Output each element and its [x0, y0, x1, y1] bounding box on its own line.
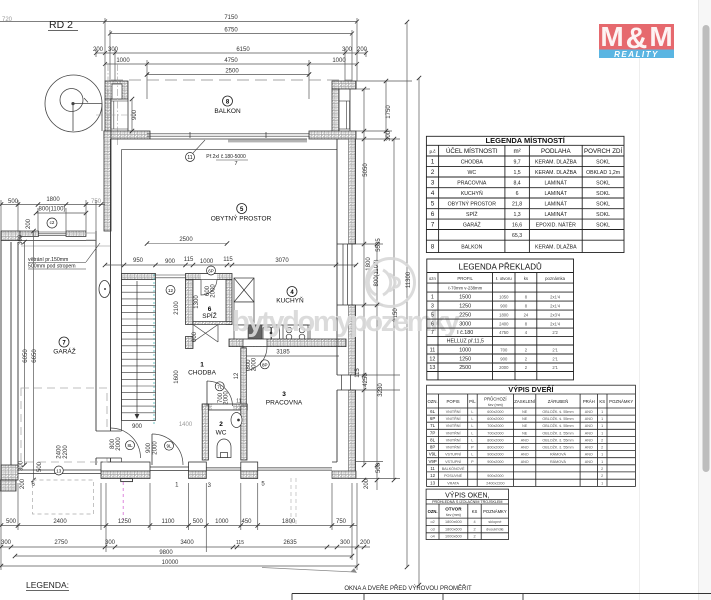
svg-text:ℓ-70mm v-238mm: ℓ-70mm v-238mm — [448, 286, 482, 291]
svg-text:2: 2 — [525, 347, 528, 352]
svg-text:4: 4 — [525, 330, 528, 335]
svg-text:200: 200 — [20, 478, 26, 489]
svg-text:2100: 2100 — [174, 301, 180, 315]
svg-text:REALITY: REALITY — [614, 50, 659, 59]
svg-text:SOKL: SOKL — [596, 191, 610, 197]
spiral stair circle top-left — [45, 75, 102, 132]
svg-text:ℓ. otvoru: ℓ. otvoru — [496, 276, 512, 281]
toilet — [217, 439, 231, 457]
svg-text:NE: NE — [522, 410, 528, 414]
svg-text:OBLOŽK. š. 55mm: OBLOŽK. š. 55mm — [542, 437, 573, 442]
svg-text:2: 2 — [601, 474, 603, 478]
svg-text:200: 200 — [93, 47, 104, 53]
svg-text:1250: 1250 — [118, 519, 132, 525]
svg-text:OBLOŽK. š. 55mm: OBLOŽK. š. 55mm — [542, 430, 573, 435]
svg-text:PRACOVNA: PRACOVNA — [266, 400, 303, 407]
svg-text:115: 115 — [223, 257, 233, 263]
svg-text:11: 11 — [430, 466, 435, 471]
svg-text:BALKON: BALKON — [461, 244, 482, 250]
vrata dashed swing — [33, 480, 94, 514]
svg-text:1,3: 1,3 — [513, 212, 520, 218]
svg-text:2: 2 — [525, 365, 528, 370]
svg-text:4: 4 — [290, 290, 294, 296]
svg-text:115: 115 — [355, 368, 361, 378]
svg-text:6650: 6650 — [32, 349, 38, 363]
svg-text:LAMINÁT: LAMINÁT — [545, 179, 568, 186]
svg-text:OBYTNÝ PROSTOR: OBYTNÝ PROSTOR — [211, 214, 272, 223]
svg-text:L: L — [471, 431, 473, 435]
kitchen bottom wall — [229, 339, 346, 347]
svg-text:5: 5 — [431, 200, 435, 207]
svg-text:KERAM. DLAŽBA: KERAM. DLAŽBA — [535, 242, 577, 250]
east door opening — [337, 375, 356, 390]
svg-text:8P: 8P — [430, 445, 435, 450]
svg-text:VNITŘNÍ: VNITŘNÍ — [446, 409, 462, 414]
svg-text:900: 900 — [132, 109, 138, 120]
balcony east pier — [332, 81, 356, 138]
svg-text:1000: 1000 — [459, 347, 471, 353]
svg-text:16,6: 16,6 — [512, 222, 522, 228]
svg-text:1100: 1100 — [162, 519, 176, 525]
svg-text:1: 1 — [601, 481, 603, 485]
east window — [337, 244, 356, 305]
svg-text:750: 750 — [336, 519, 347, 525]
svg-text:OBLOŽK. š. 55mm: OBLOŽK. š. 55mm — [542, 445, 573, 450]
svg-text:2: 2 — [473, 528, 475, 532]
svg-text:1,5: 1,5 — [513, 170, 520, 176]
svg-text:2x3'4: 2x3'4 — [550, 312, 561, 317]
svg-text:ÚČEL MÍSTNOSTI: ÚČEL MÍSTNOSTI — [446, 148, 498, 155]
svg-text:NE: NE — [522, 431, 528, 435]
svg-text:6: 6 — [32, 482, 36, 488]
svg-text:OBLOŽK. š. 55mm: OBLOŽK. š. 55mm — [542, 416, 573, 421]
svg-text:RÁMOVÁ: RÁMOVÁ — [550, 453, 567, 457]
svg-text:3: 3 — [431, 179, 435, 186]
svg-text:2500: 2500 — [459, 365, 471, 371]
door 7L — [206, 381, 208, 406]
svg-text:BALKÓNOVÉ: BALKÓNOVÉ — [442, 466, 465, 471]
svg-text:1: 1 — [601, 431, 603, 435]
svg-text:PRŮHLEDNÁ S IZOLAČNÍM TROJSK: PRŮHLEDNÁ S IZOLAČNÍM TROJSKLEM — [432, 499, 502, 504]
svg-text:5: 5 — [240, 207, 244, 213]
svg-text:10000: 10000 — [162, 560, 179, 566]
svg-text:V9P: V9P — [428, 459, 436, 464]
svg-text:1: 1 — [601, 453, 603, 457]
svg-text:8L: 8L — [127, 443, 133, 448]
svg-text:2400x2200: 2400x2200 — [486, 481, 504, 485]
svg-text:3: 3 — [431, 303, 434, 309]
svg-text:ANO: ANO — [585, 453, 593, 457]
svg-text:8: 8 — [431, 243, 435, 250]
svg-text:ANO: ANO — [585, 460, 593, 464]
svg-text:11: 11 — [187, 155, 192, 161]
svg-text:7: 7 — [431, 330, 434, 336]
svg-text:12: 12 — [234, 372, 240, 379]
svg-text:300: 300 — [108, 47, 119, 53]
svg-text:700x2000: 700x2000 — [487, 424, 503, 428]
svg-text:KERAM. DLAŽBA: KERAM. DLAŽBA — [535, 157, 577, 165]
svg-text:2: 2 — [525, 356, 528, 361]
svg-text:KS: KS — [472, 509, 478, 514]
svg-text:L: L — [471, 438, 473, 442]
svg-text:POZNÁMKY: POZNÁMKY — [609, 399, 633, 404]
svg-text:ANO: ANO — [521, 453, 529, 457]
svg-text:LEGENDA:: LEGENDA: — [26, 580, 69, 590]
svg-text:720: 720 — [2, 17, 13, 23]
svg-text:800x2000: 800x2000 — [487, 446, 503, 450]
svg-text:8L: 8L — [430, 437, 435, 442]
threshold — [121, 479, 133, 482]
svg-text:p.č: p.č — [429, 149, 436, 154]
svg-text:6P: 6P — [430, 416, 435, 421]
svg-text:4: 4 — [431, 190, 435, 197]
svg-text:3185: 3185 — [276, 350, 290, 356]
svg-text:LAMINÁT: LAMINÁT — [545, 200, 568, 207]
page edge faint — [639, 55, 641, 600]
svg-text:GARÁŽ: GARÁŽ — [53, 347, 75, 356]
svg-text:6050: 6050 — [23, 349, 29, 363]
svg-text:1800x600: 1800x600 — [445, 520, 462, 524]
svg-text:300: 300 — [340, 540, 351, 546]
svg-text:900: 900 — [500, 356, 508, 361]
svg-text:PRŮCHOZÍ: PRŮCHOZÍ — [484, 397, 507, 402]
svg-text:o3: o3 — [430, 528, 434, 532]
svg-text:500: 500 — [193, 519, 204, 525]
svg-text:šxv (mm): šxv (mm) — [488, 403, 503, 407]
svg-text:12: 12 — [429, 356, 435, 362]
svg-text:BALKON: BALKON — [214, 108, 241, 115]
balcony north dashed line — [111, 79, 352, 81]
svg-text:6: 6 — [431, 211, 435, 218]
svg-text:2: 2 — [219, 421, 223, 428]
svg-text:OBYTNÝ PROSTOR: OBYTNÝ PROSTOR — [448, 200, 497, 207]
svg-text:OTVOR: OTVOR — [445, 507, 462, 512]
svg-text:600: 600 — [192, 331, 198, 342]
svg-text:POZNÁMKY: POZNÁMKY — [483, 509, 507, 514]
svg-text:VÝPIS DVEŘÍ: VÝPIS DVEŘÍ — [508, 385, 554, 394]
wc sink — [231, 413, 242, 428]
stove — [283, 325, 308, 341]
svg-text:21,8: 21,8 — [512, 201, 522, 207]
svg-text:2'1: 2'1 — [552, 356, 558, 361]
svg-text:LEGENDA PŘEKLADŮ: LEGENDA PŘEKLADŮ — [459, 263, 542, 272]
svg-text:SOKL: SOKL — [596, 222, 610, 228]
svg-text:6750: 6750 — [224, 28, 238, 34]
svg-text:6150: 6150 — [236, 47, 250, 53]
svg-text:KUCHYŇ: KUCHYŇ — [276, 296, 304, 305]
svg-text:700x2000: 700x2000 — [487, 431, 503, 435]
svg-text:9800: 9800 — [159, 550, 173, 556]
svg-text:2000: 2000 — [116, 437, 122, 451]
label 11 with leader — [186, 153, 195, 162]
svg-text:1050: 1050 — [499, 294, 509, 299]
svg-text:1000: 1000 — [332, 58, 346, 64]
svg-text:dvoukřídlé: dvoukřídlé — [486, 528, 504, 532]
svg-text:2200: 2200 — [63, 445, 69, 459]
svg-text:2000: 2000 — [224, 391, 230, 405]
svg-text:L: L — [471, 453, 473, 457]
svg-text:LAMINÁT: LAMINÁT — [545, 190, 568, 197]
svg-text:200: 200 — [26, 218, 32, 229]
balcony label — [223, 96, 233, 106]
svg-text:2'2: 2'2 — [552, 330, 558, 335]
svg-text:poznámka: poznámka — [545, 276, 565, 281]
svg-text:SOKL: SOKL — [596, 159, 610, 165]
svg-text:ZASKLENÍ: ZASKLENÍ — [514, 399, 536, 404]
svg-text:L: L — [471, 424, 473, 428]
svg-text:VNITŘNÍ: VNITŘNÍ — [446, 423, 462, 428]
svg-text:600x2000: 600x2000 — [487, 410, 503, 414]
table LEGENDA MISTNOSTI — [426, 136, 624, 252]
svg-text:7: 7 — [62, 340, 66, 346]
svg-text:1: 1 — [200, 362, 204, 369]
svg-text:3230: 3230 — [378, 383, 384, 397]
svg-text:1000x600: 1000x600 — [445, 535, 462, 539]
svg-text:1000: 1000 — [215, 519, 229, 525]
spiz door X mark — [193, 325, 218, 343]
svg-text:2: 2 — [601, 467, 603, 471]
svg-text:1300: 1300 — [194, 295, 200, 309]
svg-text:200: 200 — [364, 478, 370, 489]
garage top wall — [1, 231, 20, 241]
svg-text:1800: 1800 — [46, 197, 60, 203]
svg-text:KS: KS — [599, 399, 605, 404]
svg-text:300: 300 — [342, 47, 353, 53]
svg-text:OZN.: OZN. — [427, 399, 437, 404]
svg-text:ANO: ANO — [585, 431, 593, 435]
svg-text:ozn: ozn — [429, 276, 437, 281]
svg-text:2'1: 2'1 — [552, 365, 558, 370]
svg-text:24: 24 — [524, 312, 529, 317]
svg-text:PRÁH: PRÁH — [583, 399, 595, 404]
svg-text:šxv (mm): šxv (mm) — [446, 513, 461, 517]
svg-text:WC: WC — [467, 170, 476, 176]
balcony west pier — [105, 81, 128, 131]
svg-text:SPÍŽ: SPÍŽ — [466, 210, 478, 218]
svg-text:6P: 6P — [208, 269, 214, 274]
svg-text:ANO: ANO — [585, 438, 593, 442]
svg-text:3: 3 — [208, 483, 212, 489]
svg-text:5050: 5050 — [363, 163, 369, 177]
svg-text:13: 13 — [429, 365, 435, 371]
svg-text:LAMINÁT: LAMINÁT — [545, 211, 568, 218]
kitchen label — [287, 287, 297, 297]
svg-text:OZN.: OZN. — [428, 509, 438, 514]
svg-text:7: 7 — [431, 221, 435, 228]
garage vrata opening — [18, 470, 101, 474]
svg-text:L: L — [471, 417, 473, 421]
svg-text:1800x600: 1800x600 — [445, 528, 462, 532]
windows bottom — [206, 468, 332, 471]
svg-text:PROFIL: PROFIL — [457, 276, 473, 281]
svg-text:SOKL: SOKL — [596, 180, 610, 186]
svg-text:SOKL: SOKL — [596, 201, 610, 207]
svg-text:VNITŘNÍ: VNITŘNÍ — [446, 416, 462, 421]
svg-text:2750: 2750 — [54, 540, 68, 546]
svg-text:800(1100): 800(1100) — [39, 207, 66, 213]
svg-text:200: 200 — [357, 47, 368, 53]
svg-text:c2: c2 — [50, 220, 55, 225]
svg-text:2000: 2000 — [499, 365, 509, 370]
svg-text:M: M — [600, 21, 623, 52]
svg-text:OBLOŽK. š. 55mm: OBLOŽK. š. 55mm — [542, 423, 573, 428]
svg-text:1: 1 — [601, 410, 603, 414]
svg-text:VRATA: VRATA — [447, 481, 459, 485]
svg-text:2: 2 — [473, 535, 475, 539]
svg-text:1800: 1800 — [282, 519, 296, 525]
svg-text:3: 3 — [282, 391, 286, 398]
svg-text:o2: o2 — [430, 520, 434, 524]
svg-text:900: 900 — [132, 424, 143, 430]
svg-text:P: P — [471, 446, 474, 450]
svg-text:OBKLAD 1,2m: OBKLAD 1,2m — [586, 170, 620, 176]
sink — [263, 327, 280, 341]
svg-text:2400: 2400 — [57, 445, 63, 459]
svg-text:VSTUPNÍ: VSTUPNÍ — [445, 453, 462, 457]
svg-text:VNITŘNÍ: VNITŘNÍ — [446, 437, 462, 442]
svg-text:CHODBA: CHODBA — [461, 159, 484, 165]
svg-text:7L: 7L — [217, 384, 223, 389]
svg-text:900: 900 — [146, 442, 152, 453]
svg-text:1000: 1000 — [200, 259, 214, 265]
svg-text:LEGENDA MÍSTNOSTÍ: LEGENDA MÍSTNOSTÍ — [486, 136, 566, 145]
svg-text:300: 300 — [19, 460, 25, 471]
svg-text:9L: 9L — [166, 444, 172, 449]
svg-text:2'1: 2'1 — [552, 347, 558, 352]
svg-text:OBLOŽK. š. 55mm: OBLOŽK. š. 55mm — [542, 409, 573, 414]
svg-text:KUCHYŇ: KUCHYŇ — [461, 190, 483, 197]
svg-text:11: 11 — [430, 347, 436, 353]
svg-text:ks: ks — [524, 276, 528, 281]
svg-text:11: 11 — [236, 399, 241, 405]
svg-text:VSTUPNÍ: VSTUPNÍ — [445, 460, 462, 464]
door 8P — [242, 347, 244, 371]
garage/house wall — [96, 139, 111, 465]
svg-text:5: 5 — [261, 482, 265, 488]
svg-text:6: 6 — [516, 191, 519, 197]
svg-text:ANO: ANO — [521, 446, 529, 450]
svg-text:900x2000: 900x2000 — [487, 460, 503, 464]
svg-text:ANO: ANO — [521, 460, 529, 464]
svg-text:450: 450 — [241, 519, 252, 525]
svg-text:7: 7 — [234, 161, 237, 167]
svg-text:PODLAHA: PODLAHA — [541, 148, 571, 155]
svg-text:500: 500 — [376, 462, 382, 473]
garage label — [59, 337, 69, 347]
svg-text:POVRCH ZDÍ: POVRCH ZDÍ — [584, 148, 622, 155]
svg-text:OKNA A DVEŘE PŘED VÝROVOU PROM: OKNA A DVEŘE PŘED VÝROVOU PROMĚŘIT — [344, 584, 472, 592]
door 9L opening — [150, 467, 189, 471]
svg-text:POSUVNÉ: POSUVNÉ — [444, 473, 463, 478]
svg-text:6: 6 — [208, 306, 212, 313]
svg-text:8: 8 — [226, 99, 230, 105]
svg-text:SPÍŽ: SPÍŽ — [202, 311, 216, 320]
door ellipse garage-house — [99, 281, 110, 298]
svg-text:8,4: 8,4 — [513, 180, 520, 186]
svg-text:13: 13 — [430, 480, 435, 485]
svg-text:I č.180: I č.180 — [457, 330, 473, 336]
svg-text:2500: 2500 — [179, 237, 193, 243]
svg-text:NE: NE — [522, 424, 528, 428]
svg-text:P: P — [471, 460, 474, 464]
svg-text:1600: 1600 — [174, 370, 180, 384]
SE corner block — [332, 471, 356, 479]
svg-text:POPIS: POPIS — [447, 399, 460, 404]
svg-text:900x2000: 900x2000 — [487, 474, 503, 478]
svg-text:8: 8 — [525, 321, 528, 326]
svg-text:1500: 1500 — [459, 294, 471, 300]
svg-text:2000: 2000 — [252, 357, 258, 371]
svg-text:2400: 2400 — [499, 321, 509, 326]
svg-text:M: M — [649, 21, 672, 52]
svg-text:300: 300 — [386, 130, 392, 141]
svg-text:EPOXID. NÁTĚR: EPOXID. NÁTĚR — [536, 220, 576, 228]
svg-text:3400: 3400 — [180, 540, 194, 546]
svg-text:7P: 7P — [430, 430, 435, 435]
svg-text:2635: 2635 — [283, 540, 297, 546]
svg-text:SOKL: SOKL — [596, 212, 610, 218]
svg-text:1: 1 — [431, 294, 434, 300]
svg-text:1000: 1000 — [116, 58, 130, 64]
svg-text:1800: 1800 — [499, 312, 509, 317]
svg-text:1: 1 — [601, 460, 603, 464]
svg-text:WC: WC — [216, 430, 227, 437]
svg-text:RÁMOVÁ: RÁMOVÁ — [550, 460, 567, 464]
svg-text:2400: 2400 — [53, 519, 67, 525]
svg-text:115: 115 — [236, 540, 244, 546]
svg-text:PRACOVNA: PRACOVNA — [457, 180, 487, 186]
svg-text:1: 1 — [601, 417, 603, 421]
svg-text:o4: o4 — [430, 535, 434, 539]
svg-text:ANO: ANO — [585, 424, 593, 428]
svg-text:ANO: ANO — [585, 417, 593, 421]
svg-text:65,3: 65,3 — [512, 233, 522, 239]
svg-text:2250: 2250 — [459, 312, 471, 318]
svg-text:8: 8 — [525, 303, 528, 308]
svg-text:2x1'4: 2x1'4 — [550, 303, 561, 308]
svg-text:8P: 8P — [262, 362, 268, 367]
sliding window band — [147, 132, 309, 139]
svg-text:1750: 1750 — [386, 105, 392, 119]
svg-text:700: 700 — [500, 347, 508, 352]
svg-text:8: 8 — [525, 294, 528, 299]
table VYPIS DVERI — [427, 385, 636, 486]
svg-text:ANO: ANO — [585, 410, 593, 414]
svg-text:1: 1 — [601, 424, 603, 428]
svg-text:500: 500 — [8, 199, 19, 205]
svg-text:12: 12 — [168, 288, 174, 293]
door 6P label — [201, 280, 217, 296]
table LEGENDA PREKLADU — [427, 259, 574, 380]
svg-text:HELLUZ př.11,5: HELLUZ př.11,5 — [447, 339, 484, 345]
svg-text:1: 1 — [431, 158, 435, 165]
door 8L — [95, 431, 123, 458]
svg-text:600x2000: 600x2000 — [487, 417, 503, 421]
svg-text:2: 2 — [601, 438, 603, 442]
svg-text:9,7: 9,7 — [513, 159, 520, 165]
svg-text:500: 500 — [6, 519, 17, 525]
svg-text:VÝPIS OKEN,: VÝPIS OKEN, — [445, 491, 489, 500]
svg-text:2000: 2000 — [211, 284, 217, 298]
svg-text:2: 2 — [601, 446, 603, 450]
svg-text:CHODBA: CHODBA — [188, 370, 216, 377]
svg-text:4750: 4750 — [224, 58, 238, 64]
svg-text:7150: 7150 — [224, 15, 238, 21]
svg-text:1250: 1250 — [459, 303, 471, 309]
svg-text:5: 5 — [431, 312, 434, 318]
svg-text:3000: 3000 — [459, 321, 471, 327]
svg-text:11300: 11300 — [406, 271, 412, 288]
